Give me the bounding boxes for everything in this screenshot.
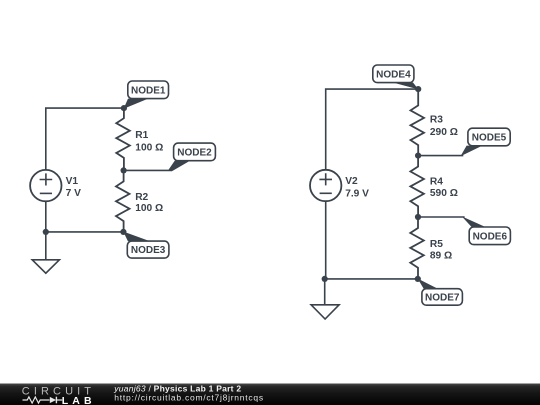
svg-text:R3: R3 xyxy=(430,115,443,126)
resistor R1 xyxy=(116,108,130,170)
label V2 value xyxy=(345,176,369,199)
resistor R2 xyxy=(116,170,130,232)
node NODE6 xyxy=(462,216,511,244)
junction dot (R4/R5 / NODE6) xyxy=(415,214,421,220)
svg-text:NODE4: NODE4 xyxy=(376,69,411,80)
node NODE1 xyxy=(124,81,169,109)
junction dot (R1 top / NODE1) xyxy=(121,105,127,111)
label R3 value xyxy=(430,115,458,138)
svg-text:NODE6: NODE6 xyxy=(473,231,508,242)
svg-text:7.9 V: 7.9 V xyxy=(345,188,369,199)
wire: V1 bottom lead down to ground rail xyxy=(45,201,47,232)
wire: NODE2 stub xyxy=(124,169,172,171)
svg-text:R2: R2 xyxy=(135,192,148,203)
label V1 value xyxy=(66,176,81,199)
wire: V2 bottom lead down xyxy=(325,201,327,279)
svg-text:NODE1: NODE1 xyxy=(131,85,166,96)
ground (right) xyxy=(311,279,339,319)
svg-text:V2: V2 xyxy=(345,176,358,187)
node NODE3 xyxy=(123,232,169,259)
label R4 value xyxy=(430,177,458,200)
svg-text:100 Ω: 100 Ω xyxy=(135,142,163,153)
wire: left bottom rail xyxy=(46,231,124,233)
junction dot (V2 bottom / ground) xyxy=(322,276,328,282)
resistor R5 xyxy=(410,217,424,279)
svg-text:89 Ω: 89 Ω xyxy=(430,251,452,262)
svg-text:590 Ω: 590 Ω xyxy=(430,188,458,199)
svg-text:NODE2: NODE2 xyxy=(177,148,212,159)
wire: NODE5 stub xyxy=(418,155,463,157)
junction dot (R3 top / NODE4) xyxy=(415,86,421,92)
svg-text:R1: R1 xyxy=(135,130,148,141)
svg-text:LAB: LAB xyxy=(62,395,96,405)
wire: NODE6 stub xyxy=(418,216,465,218)
voltage source V1 xyxy=(30,170,61,201)
junction dot (R3/R4 / NODE5) xyxy=(415,153,421,159)
svg-text:100 Ω: 100 Ω xyxy=(135,203,163,214)
svg-text:NODE3: NODE3 xyxy=(131,245,166,256)
svg-text:7 V: 7 V xyxy=(66,188,81,199)
footer bar xyxy=(0,384,540,405)
junction dot (R5 bottom / NODE7) xyxy=(415,276,421,282)
junction dot (V1 bottom / ground) xyxy=(43,229,49,235)
node NODE2 xyxy=(169,143,216,171)
junction dot (R1/R2 / NODE2) xyxy=(121,167,127,173)
svg-text:http://circuitlab.com/ct7j8jrn: http://circuitlab.com/ct7j8jrnntcqs xyxy=(114,393,264,403)
resistor R3 xyxy=(411,89,425,156)
svg-text:V1: V1 xyxy=(66,176,79,187)
label R1 value xyxy=(135,130,163,153)
resistor R4 xyxy=(410,156,424,217)
svg-text:R4: R4 xyxy=(430,177,443,188)
CircuitLab logo xyxy=(22,386,96,405)
svg-text:NODE5: NODE5 xyxy=(472,133,507,144)
node NODE4 xyxy=(373,65,419,89)
wire: right bottom rail xyxy=(325,278,418,280)
ground (left) xyxy=(32,232,59,273)
label R5 value xyxy=(430,239,452,262)
svg-text:NODE7: NODE7 xyxy=(425,293,460,304)
wire: V2 top lead up and across to R3 top xyxy=(326,89,419,170)
node NODE5 xyxy=(461,128,511,156)
junction dot (R2 bottom / NODE3) xyxy=(120,229,126,235)
node NODE7 xyxy=(418,279,463,306)
label R2 value xyxy=(135,192,163,214)
wire: V1 top lead up and across to R1 top xyxy=(46,108,124,170)
svg-text:290 Ω: 290 Ω xyxy=(430,127,458,138)
voltage source V2 xyxy=(310,170,341,201)
svg-text:R5: R5 xyxy=(430,239,443,250)
